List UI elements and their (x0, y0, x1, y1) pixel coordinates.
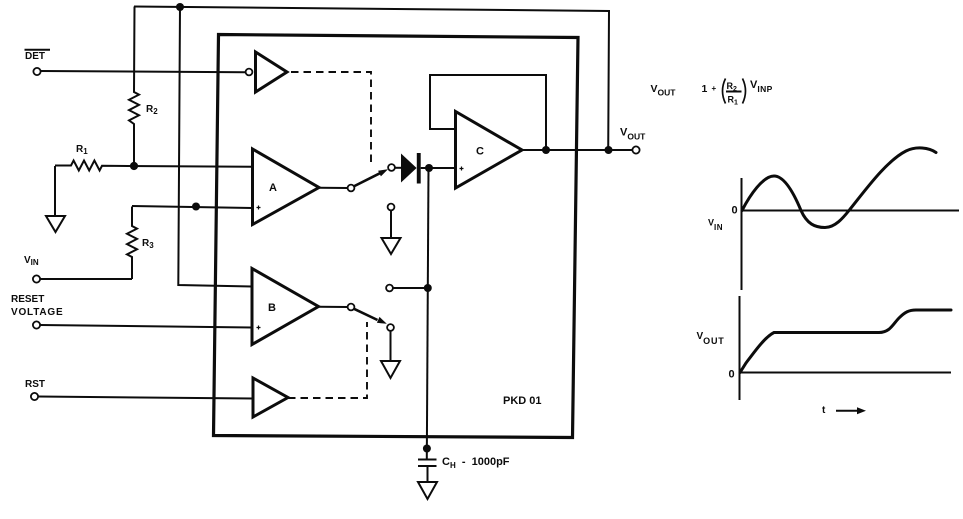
VOUT waveform graph (697, 296, 952, 416)
switch B throw bubble (387, 324, 394, 331)
equation VOUT = (1+R2/R1)VINP (651, 79, 773, 107)
pin mark C (460, 167, 464, 171)
axis vertical (741, 178, 743, 290)
op-amp B (252, 269, 319, 345)
buffer (RST) bottom (253, 378, 288, 417)
dashed control line from inverter to switch A (291, 72, 371, 163)
wire DET to inverter input (41, 71, 246, 72)
wire R1 to ground (54, 166, 56, 216)
wire to diode (395, 167, 401, 169)
wire RST to buffer (38, 397, 253, 399)
capacitor CH (418, 459, 437, 461)
svg-text:0: 0 (729, 369, 735, 381)
svg-text:RESET: RESET (11, 294, 44, 305)
terminal VOUT (632, 146, 639, 153)
svg-text:VOLTAGE: VOLTAGE (11, 307, 63, 318)
svg-text:PKD 01: PKD 01 (503, 395, 542, 407)
svg-text:C: C (476, 146, 484, 158)
wire VOUT feedback top rail (134, 7, 609, 151)
inverter input bubble (246, 69, 253, 76)
waveform VIN curve (742, 148, 936, 228)
wire reset bubble to hold line (393, 287, 428, 289)
resistor R3 (127, 207, 137, 280)
switch A blade (arrow) (354, 173, 381, 186)
wire to ground (390, 210, 392, 238)
axis horizontal (742, 210, 960, 212)
terminal RESET VOLTAGE (33, 321, 40, 328)
op-amp C (456, 112, 523, 189)
node junction top rail to B feedback (176, 3, 184, 11)
svg-text:+: + (712, 84, 717, 93)
node above CH (423, 445, 431, 453)
ground (switch A) (382, 238, 401, 254)
switch B blade (arrow) (354, 309, 378, 320)
op-amp A (253, 149, 320, 225)
wire C output to VOUT (522, 149, 632, 151)
axis horizontal (740, 372, 952, 374)
wire to ground (390, 331, 392, 361)
pin mark B (257, 326, 261, 330)
waveform VOUT curve (740, 310, 951, 373)
resistor R1 (55, 161, 252, 171)
terminal DET (33, 68, 40, 75)
wire A output to switch (319, 187, 348, 189)
buffer (inverter) top (256, 52, 288, 92)
svg-text:DET: DET (25, 51, 45, 62)
axis vertical (739, 296, 741, 400)
terminal RST (31, 393, 38, 400)
wire R3 node to A- input (132, 206, 252, 208)
wire diode to C- input (421, 167, 456, 169)
terminal VIN (33, 275, 40, 282)
pin mark A (257, 206, 261, 210)
svg-text:RST: RST (25, 379, 45, 390)
node VOUT rail (605, 146, 613, 154)
reset contact bubble (386, 285, 393, 292)
IC box PKD 01 outline (214, 35, 579, 438)
node R1/R2 junction (130, 162, 138, 170)
switch A throw bubble (388, 164, 395, 171)
wire B output to switch (319, 306, 348, 308)
VIN waveform graph (708, 148, 959, 290)
switch A ground contact bubble (388, 204, 395, 211)
ground (CH) (418, 482, 437, 499)
node diode/hold (425, 164, 433, 172)
dashed control line from RST buffer to switch B (288, 322, 367, 398)
resistor R2 (129, 7, 139, 167)
node C output / feedback (542, 146, 550, 154)
node reset tap (424, 284, 432, 292)
switch A pole bubble (348, 185, 355, 192)
diode D1 (401, 154, 417, 183)
svg-text:A: A (269, 182, 277, 194)
svg-text:0: 0 (732, 205, 738, 217)
wire RESET to B- input (40, 325, 252, 328)
wire C feedback loop (430, 75, 546, 150)
wire VIN to R3 (40, 278, 132, 280)
svg-text:1: 1 (702, 83, 708, 95)
ground (switch B) (381, 361, 400, 378)
ground (below R1) (46, 216, 65, 232)
wire feedback to B+ input (178, 7, 252, 287)
wire hold node to CH (427, 168, 429, 459)
node on A- wire (192, 203, 200, 211)
svg-text:B: B (268, 302, 276, 314)
switch B pole bubble (348, 304, 355, 311)
